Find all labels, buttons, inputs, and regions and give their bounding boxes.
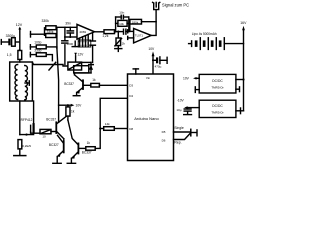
wire transformer bottom to source node [19, 101, 21, 135]
switch blade [49, 62, 56, 70]
svg-text:Single: Single [174, 126, 184, 130]
op-amp U1 4069 [77, 24, 95, 39]
arduino U3 box [128, 74, 174, 161]
svg-text:4069: 4069 [79, 30, 86, 34]
transistor Q1 BC337 [75, 75, 91, 94]
U1 pin stubs and dots [78, 35, 91, 48]
battery B1 [189, 38, 244, 50]
svg-text:470µ: 470µ [155, 65, 162, 69]
node [242, 78, 244, 80]
input stub lower [128, 36, 134, 39]
resistor R2 330k [46, 26, 56, 30]
ground P1 [115, 46, 122, 52]
svg-text:2k: 2k [122, 42, 126, 46]
wire RC left [115, 17, 118, 33]
terminal input left [1, 40, 8, 45]
mosfet Q5 IRFP412 [20, 124, 40, 136]
wire driver to Q4 [68, 120, 78, 145]
svg-text:10V: 10V [183, 76, 190, 80]
wire opamp1 inputs vertical [64, 27, 66, 37]
wire [46, 55, 52, 61]
resistor R11 1,2k [104, 30, 115, 34]
wire emitter to Q3 base [63, 139, 65, 142]
relay contact box [74, 66, 89, 73]
svg-text:DC/DC: DC/DC [212, 104, 223, 108]
wire U1 output [95, 31, 105, 33]
svg-text:10: 10 [42, 134, 46, 138]
ground arduino top [133, 69, 138, 74]
svg-text:10k: 10k [119, 22, 124, 26]
dcdc converter 2 [199, 100, 236, 117]
node [99, 127, 101, 129]
svg-text:330p: 330p [34, 48, 41, 52]
svg-text:10n: 10n [119, 11, 124, 15]
svg-text:0,2E/9: 0,2E/9 [22, 144, 31, 148]
svg-text:TMR5-Dr: TMR5-Dr [211, 85, 223, 89]
diode D1 [89, 62, 94, 73]
wire to D3 [99, 84, 127, 86]
switch S1 [191, 129, 197, 136]
transistor Q4 BC337 [71, 143, 86, 158]
svg-text:Vin: Vin [146, 76, 151, 80]
svg-text:BC327: BC327 [49, 143, 59, 147]
resistor R1 1,5 [18, 51, 22, 60]
wire dcdc2 right [236, 108, 244, 114]
transistor Q2 BC337 [56, 117, 66, 139]
wire [19, 42, 21, 51]
resistor R6 1k [91, 83, 100, 87]
wire dcdc1 right [236, 79, 244, 81]
node [117, 31, 119, 33]
capacitor C2 39n [67, 27, 73, 38]
relay K1 coil [68, 62, 82, 70]
terminal input B [30, 45, 36, 49]
svg-text:10V: 10V [148, 47, 155, 51]
capacitor C7 10u [184, 108, 192, 115]
feedback wire up [129, 22, 131, 32]
resistor R13 180k [130, 19, 142, 24]
svg-text:IRFP412: IRFP412 [20, 118, 33, 122]
terminal coil A [31, 28, 45, 37]
wire D6 [174, 133, 191, 140]
svg-text:BC337: BC337 [82, 151, 92, 155]
svg-text:39n: 39n [65, 21, 71, 25]
wire relay bottom [74, 72, 91, 74]
ground Q3 [53, 157, 61, 164]
terminal input C [30, 52, 36, 56]
resistor R10 0,2E [18, 140, 22, 149]
svg-text:12V: 12V [78, 53, 85, 57]
dcdc converter 1 [199, 74, 236, 93]
wire lower input [65, 36, 77, 38]
node junction [19, 49, 21, 51]
svg-text:Rep.: Rep. [174, 141, 181, 145]
wire RC right [127, 17, 130, 32]
gate resistor box [40, 129, 56, 133]
svg-text:D6: D6 [162, 139, 166, 143]
svg-text:14k: 14k [105, 122, 110, 126]
wire drain to transformer [33, 101, 35, 124]
svg-text:12V: 12V [16, 23, 23, 27]
wire [19, 60, 21, 63]
supply flag 12V relay [74, 53, 77, 62]
wire [46, 46, 57, 48]
wire D5 [174, 131, 191, 133]
ground U1 [72, 41, 78, 46]
svg-text:16V: 16V [240, 21, 247, 25]
wire cap to rail [15, 41, 20, 43]
svg-text:BC337: BC337 [46, 117, 56, 121]
svg-text:D5: D5 [162, 130, 166, 134]
svg-text:1,2k: 1,2k [102, 34, 109, 38]
capacitor C3 1000 [62, 37, 68, 43]
wire right join [56, 27, 58, 48]
capacitor C8 opamp to relay [90, 34, 95, 63]
connector J1 [153, 2, 160, 9]
potentiometer P1 [115, 32, 122, 46]
terminal inv input [127, 30, 129, 33]
svg-text:3300µ: 3300µ [6, 34, 16, 38]
svg-text:1k: 1k [87, 141, 91, 145]
svg-text:10V: 10V [76, 104, 83, 108]
wire U2 output [151, 10, 156, 35]
resistor R7 1k [66, 105, 70, 120]
wire to Q1 collector [74, 73, 76, 75]
wire long to driver base [57, 48, 59, 122]
resistor R8 1k [86, 147, 95, 151]
svg-text:330k: 330k [42, 19, 50, 23]
wire feedback to output [142, 21, 157, 23]
svg-text:1,5: 1,5 [7, 53, 12, 57]
resistor R9 14k [100, 127, 127, 131]
resistor R12 10k [118, 20, 127, 26]
transformer tap [25, 81, 29, 85]
svg-text:TMR5-Dr: TMR5-Dr [211, 111, 223, 115]
wire relay top [82, 61, 91, 63]
svg-text:1k: 1k [92, 78, 96, 82]
svg-text:10µ: 10µ [176, 108, 181, 112]
capacitor C4 coupling [124, 29, 134, 34]
svg-text:DC/DC: DC/DC [212, 79, 223, 83]
svg-text:180k: 180k [132, 20, 139, 24]
svg-text:BC337: BC337 [64, 82, 74, 86]
supply flag 10V arduino [152, 51, 155, 74]
wire to opamp input [57, 26, 77, 28]
transistor Q3 BC327 [57, 135, 64, 157]
svg-text:Signal zum PC: Signal zum PC [162, 3, 189, 8]
svg-text:D4: D4 [129, 94, 133, 98]
wire D4 net [95, 98, 127, 148]
svg-text:100p: 100p [34, 40, 41, 44]
op-amp U2 TL071 [134, 28, 152, 43]
supply flag 12V [18, 27, 21, 42]
output flag 10V [193, 77, 199, 80]
wire [115, 31, 124, 33]
svg-text:D8: D8 [129, 127, 133, 131]
svg-text:1k: 1k [71, 109, 75, 113]
capacitor C1 3300u [8, 38, 15, 47]
svg-text:1000: 1000 [66, 42, 73, 46]
svg-text:Arduino Nano: Arduino Nano [134, 116, 159, 121]
svg-text:D3: D3 [129, 84, 133, 88]
ground Q4 [67, 158, 75, 163]
capacitor C6 470u [152, 57, 167, 64]
output flag -10V [184, 106, 199, 109]
capacitor C5 10n [116, 15, 129, 18]
ground Q1 [73, 92, 80, 95]
terminal dcdc1 right low [236, 87, 240, 92]
terminal dcdc1 left [195, 87, 199, 93]
resistor R4 [36, 45, 46, 49]
wire transformer top to relay [32, 62, 68, 66]
supply flag 10V driver [59, 104, 75, 107]
svg-text:TL071: TL071 [135, 34, 144, 38]
svg-text:Lipo 4s 5000mAh: Lipo 4s 5000mAh [192, 32, 217, 36]
resistor R3 330k [46, 34, 56, 38]
ground main [14, 149, 26, 156]
transformer T1 [10, 62, 33, 101]
resistor R5 [36, 53, 46, 57]
supply arrow 16V [242, 26, 245, 111]
wire cap1000 down [64, 45, 66, 65]
svg-text:-10V: -10V [177, 99, 185, 103]
